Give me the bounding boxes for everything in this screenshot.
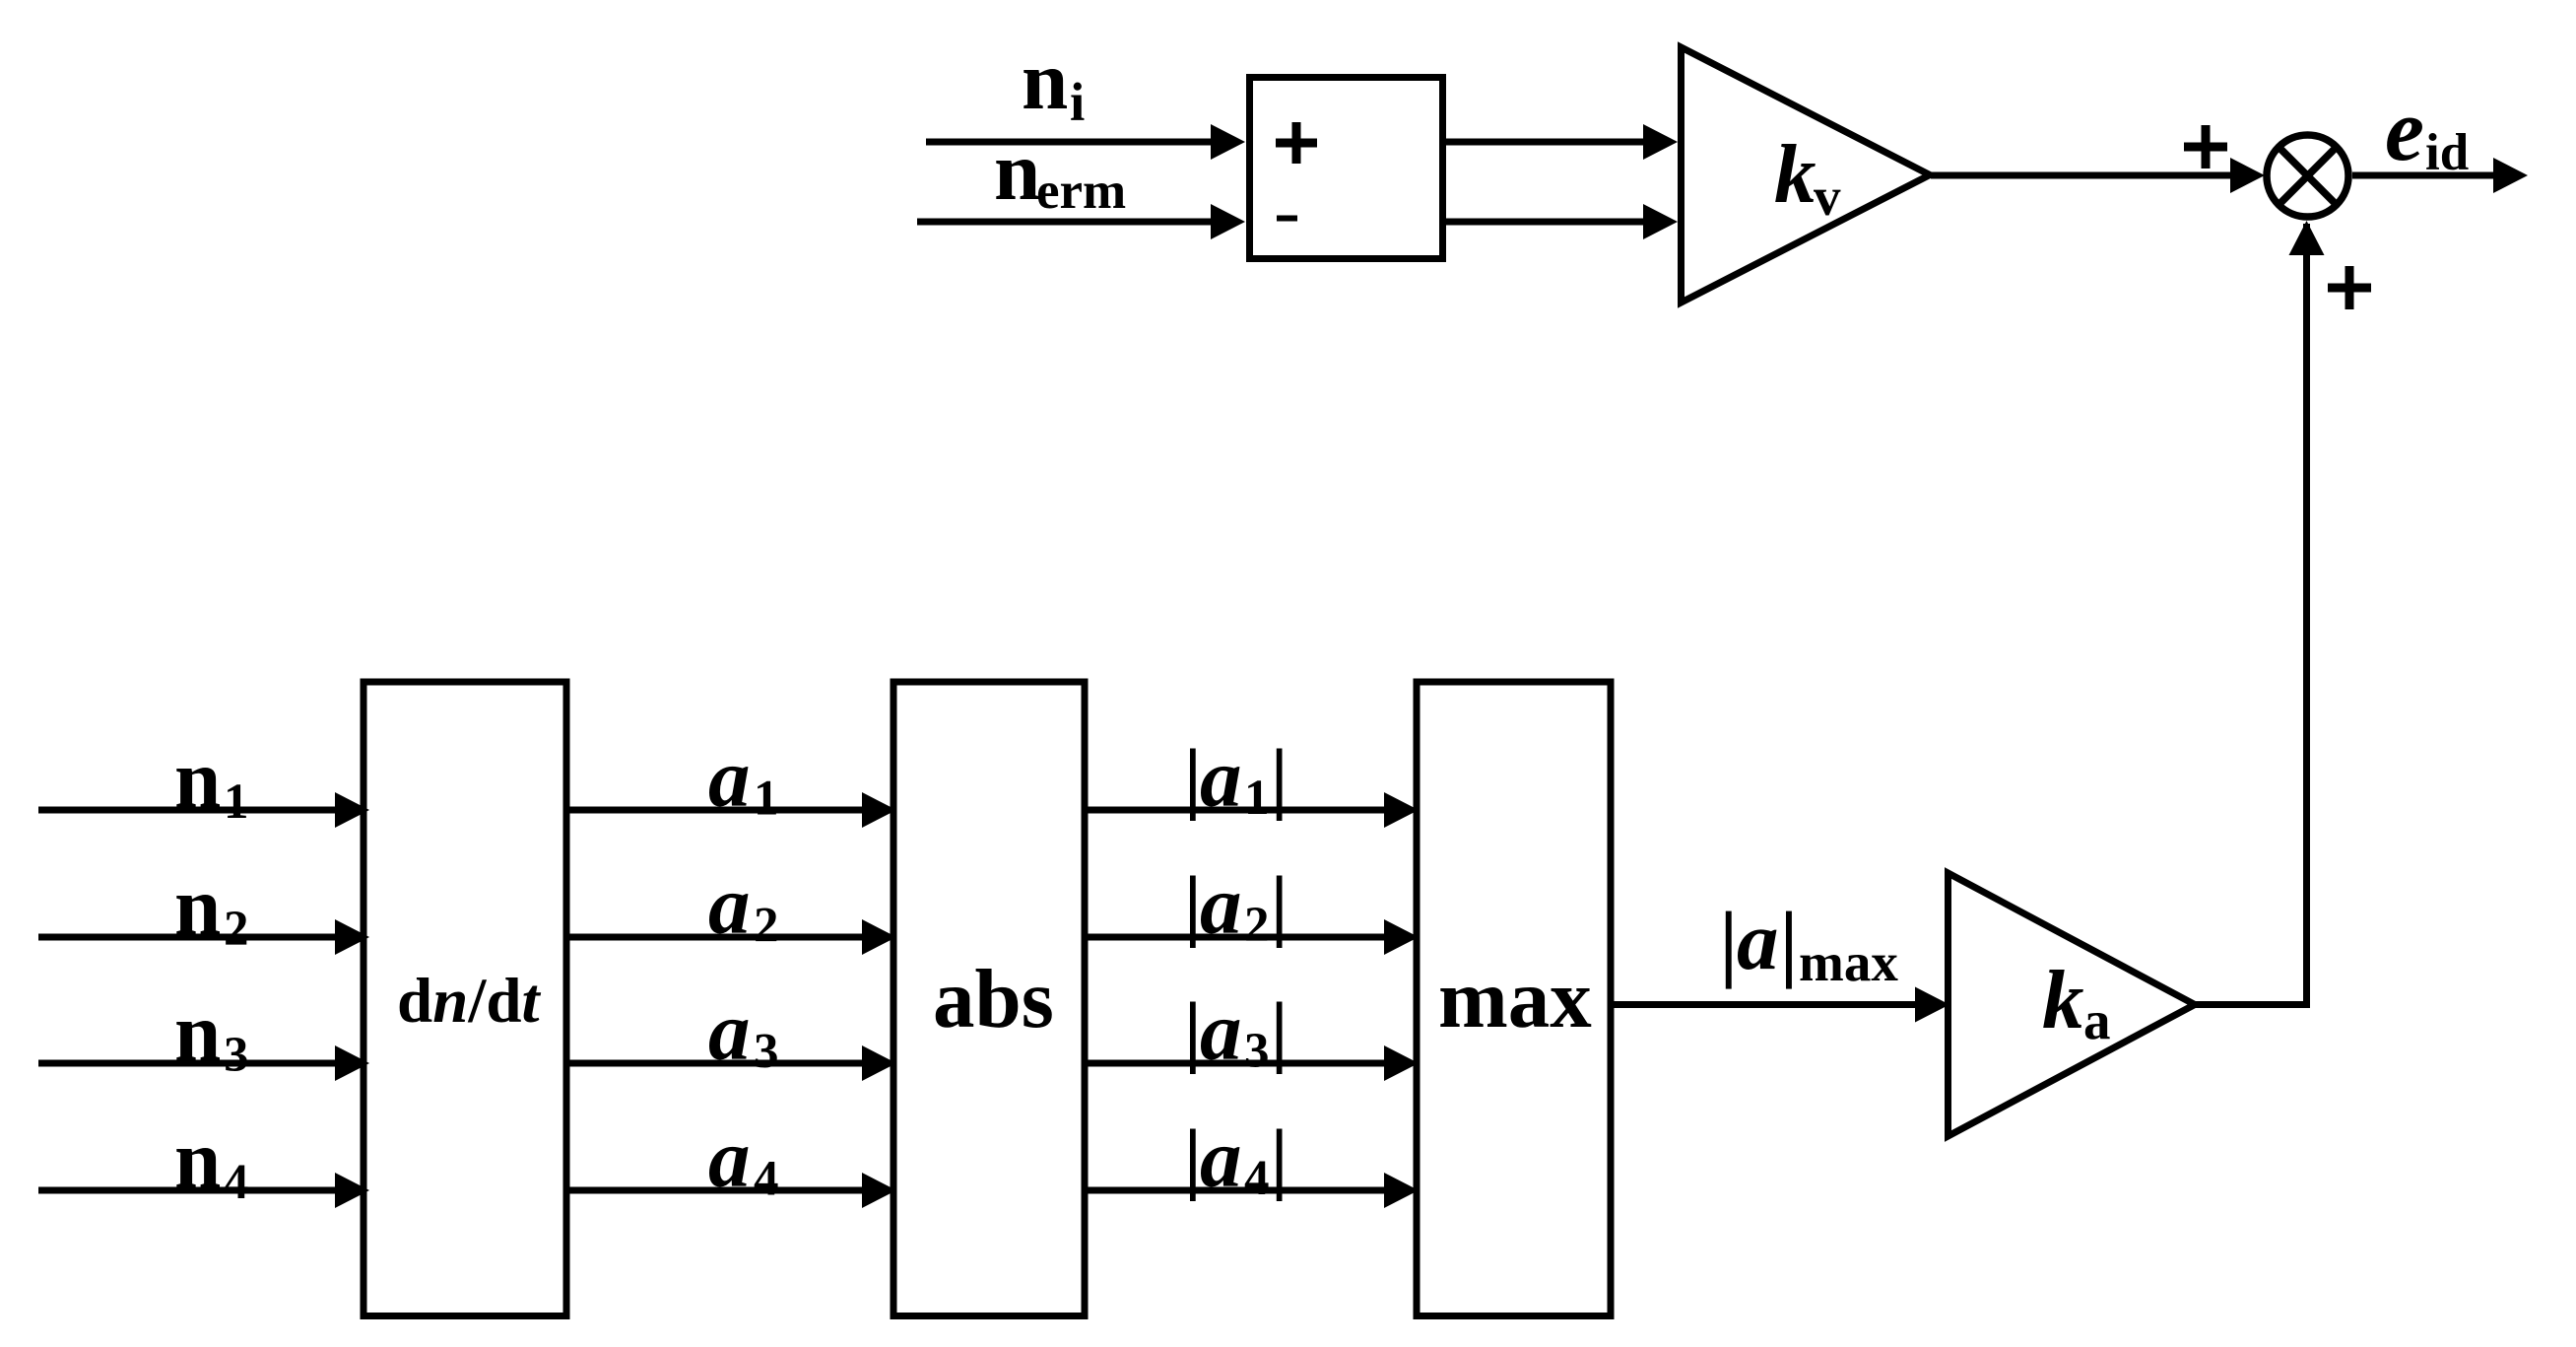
wire: n_1 input line	[38, 807, 337, 814]
svg-text:a: a	[708, 985, 751, 1078]
arrowhead: |a_2| into max	[1384, 919, 1419, 955]
label |a_4|	[1190, 1129, 1196, 1202]
arrowhead: n_erm into summer	[1211, 204, 1245, 239]
block max	[1417, 682, 1611, 1316]
wire: k_a output to corner	[2196, 1001, 2310, 1008]
wire: n_i input line	[926, 139, 1215, 146]
arrowhead: |a_4| into max	[1384, 1173, 1419, 1208]
svg-text:a: a	[1200, 985, 1242, 1078]
plus sign inside summer	[1276, 122, 1317, 164]
arrowhead: n_i into summer	[1211, 124, 1245, 160]
svg-text:n: n	[174, 860, 221, 953]
svg-text:a: a	[1200, 732, 1242, 825]
arrowhead: a_1 into abs	[862, 792, 896, 828]
arrowhead: n_2 into dn/dt	[335, 919, 369, 955]
svg-text:4: 4	[1244, 1151, 1270, 1206]
svg-text:3: 3	[1244, 1024, 1270, 1079]
minus sign inside summer	[1277, 216, 1297, 222]
arrowhead: n_3 into dn/dt	[335, 1045, 369, 1081]
svg-text:4: 4	[754, 1152, 779, 1207]
block dn/dt	[363, 682, 566, 1316]
svg-text:n: n	[174, 986, 221, 1079]
svg-text:k: k	[2042, 954, 2084, 1046]
svg-text:a: a	[708, 859, 751, 952]
gain block k_v (triangle)	[1682, 47, 1931, 303]
arrowhead: upper into k_v	[1643, 124, 1678, 160]
svg-text:a: a	[1200, 859, 1242, 952]
svg-text:n: n	[174, 1113, 221, 1206]
svg-text:abs: abs	[933, 953, 1054, 1045]
svg-text:e: e	[2385, 82, 2424, 179]
arrowhead: a_3 into abs	[862, 1045, 896, 1081]
label |a|max	[1726, 911, 1732, 989]
wire: a_3 line dn/dt to abs	[566, 1060, 864, 1067]
arrowhead: a_2 into abs	[862, 919, 896, 955]
gain block k_a (triangle)	[1949, 873, 2196, 1136]
arrowhead: n_1 into dn/dt	[335, 792, 369, 828]
multiplier circle with X	[2267, 135, 2348, 217]
svg-text:2: 2	[1244, 898, 1270, 953]
wire: vertical from k_a up to multiplier	[2303, 224, 2310, 1005]
plus sign above multiplier input	[2184, 125, 2227, 168]
svg-text:max: max	[1799, 932, 1898, 992]
svg-text:2: 2	[224, 902, 249, 957]
wire: summer to k_v lower	[1446, 219, 1643, 226]
arrowhead: |a_3| into max	[1384, 1045, 1419, 1081]
label |a_3|	[1190, 1002, 1196, 1075]
wire: a_2 line dn/dt to abs	[566, 934, 864, 941]
svg-text:a: a	[1200, 1112, 1242, 1205]
svg-text:id: id	[2425, 124, 2469, 181]
arrowhead: e_id output	[2493, 158, 2528, 193]
arrowhead: n_4 into dn/dt	[335, 1173, 369, 1208]
arrowhead: |a_1| into max	[1384, 792, 1419, 828]
svg-text:n: n	[994, 125, 1040, 218]
svg-text:a: a	[1737, 895, 1779, 987]
wire: k_v to multiplier	[1931, 172, 2230, 179]
svg-text:erm: erm	[1036, 163, 1126, 220]
wire: abs_2 line abs to max	[1085, 934, 1386, 941]
svg-text:n: n	[1022, 34, 1068, 127]
arrowhead: into multiplier left	[2230, 158, 2265, 193]
arrowhead: into k_a	[1915, 987, 1949, 1023]
wire: n_erm input line	[917, 219, 1215, 226]
svg-text:2: 2	[754, 899, 779, 954]
arrowhead: a_4 into abs	[862, 1173, 896, 1208]
svg-text:a: a	[708, 1112, 751, 1205]
wire: a_4 line dn/dt to abs	[566, 1187, 864, 1194]
label |a_2|	[1190, 876, 1196, 949]
summing block (+/-)	[1250, 78, 1443, 259]
arrowhead: up into multiplier bottom	[2289, 221, 2325, 255]
svg-text:1: 1	[1244, 771, 1270, 826]
label |a_1|	[1190, 749, 1196, 822]
wire: max output to k_a	[1610, 1001, 1917, 1008]
svg-text:v: v	[1814, 167, 1841, 227]
wire: abs_3 line abs to max	[1085, 1060, 1386, 1067]
svg-text:dn/dt: dn/dt	[397, 966, 542, 1037]
svg-text:a: a	[708, 732, 751, 825]
wire: a_1 line dn/dt to abs	[566, 807, 864, 814]
wire: abs_4 line abs to max	[1085, 1187, 1386, 1194]
svg-text:i: i	[1070, 72, 1085, 132]
svg-text:4: 4	[224, 1155, 249, 1210]
block abs	[893, 682, 1085, 1316]
svg-text:max: max	[1438, 953, 1592, 1045]
svg-text:3: 3	[224, 1028, 249, 1083]
svg-text:3: 3	[754, 1025, 779, 1080]
svg-text:1: 1	[754, 772, 779, 827]
svg-text:n: n	[174, 733, 221, 826]
wire: n_3 input line	[38, 1060, 337, 1067]
svg-text:1: 1	[224, 775, 249, 830]
wire: summer to k_v upper	[1446, 139, 1643, 146]
wire: multiplier to output	[2352, 172, 2495, 179]
svg-text:k: k	[1774, 128, 1816, 221]
svg-text:a: a	[2083, 990, 2111, 1050]
wire: abs_1 line abs to max	[1085, 807, 1386, 814]
wire: n_4 input line	[38, 1187, 337, 1194]
arrowhead: lower into k_v	[1643, 204, 1678, 239]
wire: n_2 input line	[38, 934, 337, 941]
plus sign below multiplier	[2328, 266, 2371, 309]
